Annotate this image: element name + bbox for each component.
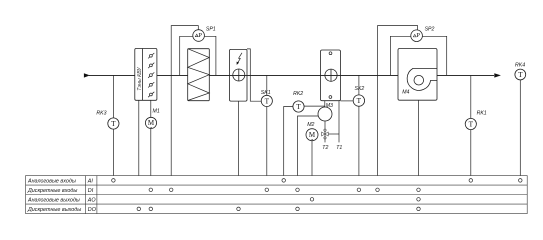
sensor RK1 — [465, 118, 476, 129]
IO table — [26, 176, 528, 214]
wire: SP1 signal line to DI row — [171, 26, 198, 190]
svg-text:M4: M4 — [402, 89, 409, 95]
pressure switch SP2 — [411, 30, 423, 42]
damper blade 1 — [148, 53, 154, 58]
svg-text:P: P — [416, 32, 420, 39]
wire: electric heater line to DO row — [238, 101, 240, 209]
node: RK4 to AI — [519, 179, 523, 183]
svg-text:M3: M3 — [326, 103, 333, 109]
sensor SK2 — [353, 95, 364, 106]
wire: valve stem up to heater bottom — [324, 101, 326, 108]
node: RK3 to AI — [112, 179, 116, 183]
node: electric heater to DO — [237, 207, 241, 211]
damper blade 5 — [148, 92, 154, 97]
electric heater symbol circle — [233, 69, 245, 81]
water heater box — [321, 50, 341, 101]
node: M1 to DI — [149, 188, 153, 192]
electric heater lightning bolt — [238, 53, 242, 63]
wire: duct segment 3 (filter to fan, through both heaters) — [209, 75, 398, 77]
svg-text:SK2: SK2 — [355, 86, 365, 92]
wire: SP1 left pressure tap — [180, 36, 199, 75]
node: SK1 to DI — [265, 188, 269, 192]
sensor RK4 — [515, 69, 526, 80]
pressure switch SP1 — [193, 30, 205, 42]
electric heater box — [230, 49, 248, 101]
svg-text:P: P — [198, 32, 202, 39]
svg-text:M1: M1 — [153, 108, 160, 114]
svg-text:Тэны КВУ: Тэны КВУ — [137, 67, 143, 91]
fan volute — [407, 68, 437, 90]
node: SK2 to DI — [357, 188, 361, 192]
wire: valve to T1 pipe — [329, 133, 339, 135]
water heater symbol circle — [325, 69, 337, 81]
svg-text:RK4: RK4 — [515, 62, 525, 68]
wire: RK2 capillary line to valve stem — [304, 105, 325, 107]
svg-text:DO: DO — [88, 207, 97, 213]
svg-text:T: T — [518, 70, 523, 79]
valve stem and T2 pipe — [324, 121, 326, 142]
node: M3 to DO — [296, 207, 300, 211]
pump M2 — [306, 129, 318, 141]
damper blade 4 — [148, 82, 154, 87]
node: RK2 to AI — [282, 179, 286, 183]
pipe T1 from heater to valve branch — [338, 101, 340, 143]
svg-text:T: T — [469, 120, 474, 129]
damper unit outer box — [135, 49, 157, 101]
svg-text:T: T — [296, 102, 301, 111]
water heater drain circle bottom — [329, 96, 332, 99]
valve coupling circle upper — [324, 129, 326, 131]
svg-text:Аналоговые входы: Аналоговые входы — [27, 178, 76, 184]
motor M1 — [145, 117, 156, 128]
sensor RK2 — [293, 101, 304, 112]
wire: duct segment 2 (damper to filter) — [157, 75, 188, 77]
svg-text:~: ~ — [311, 137, 314, 142]
outlet flow arrow — [494, 73, 501, 77]
filter box — [188, 49, 210, 101]
svg-text:M2: M2 — [307, 122, 314, 128]
svg-text:RK3: RK3 — [96, 111, 106, 117]
filter zigzag — [188, 49, 210, 101]
sensor RK3 — [108, 118, 119, 129]
node: M3 to DI — [296, 188, 300, 192]
wire: SK1 signal line duct to DI row — [266, 75, 268, 190]
wire: RK4 signal line to AI row — [519, 80, 521, 181]
wire: fan M4 lines to DI AO DO rows — [418, 100, 420, 209]
svg-text:Дискретные выходы: Дискретные выходы — [27, 207, 81, 213]
node: M4 to DI — [417, 188, 421, 192]
node: SP1 to DI — [169, 188, 173, 192]
wire: SP2 signal line to DI row — [378, 26, 418, 190]
svg-text:T2: T2 — [322, 145, 328, 151]
svg-text:SP1: SP1 — [206, 27, 216, 33]
svg-text:AI: AI — [87, 178, 94, 184]
fan box — [398, 49, 437, 101]
wire: SP2 right pressure tap — [417, 36, 447, 75]
inlet flow arrow — [84, 73, 90, 77]
wire: damper heater (Тэны КВУ) line to DO row — [138, 100, 140, 209]
svg-text:DI: DI — [88, 188, 94, 194]
wire: RK1 signal line duct to AI row — [470, 75, 472, 180]
wire: SP2 left pressure tap — [390, 36, 416, 75]
svg-text:~: ~ — [150, 125, 153, 130]
wire: SP1 right pressure tap — [199, 36, 216, 75]
wire: RK2 signal line to AI row — [284, 107, 293, 181]
svg-text:RK2: RK2 — [293, 91, 303, 97]
wire: M3 valve signal line to DI and DO rows — [298, 116, 319, 209]
wire: M2 pump line to AO row — [311, 135, 313, 200]
valve body (two triangles) — [322, 132, 325, 136]
damper blade 3 — [148, 72, 154, 77]
damper divider (Тэны КВУ column) — [142, 49, 144, 101]
svg-text:T: T — [265, 96, 270, 105]
wire: electric heater top-right stub to duct — [247, 49, 262, 101]
sensor SK1 — [261, 95, 272, 106]
svg-text:T: T — [111, 119, 116, 128]
svg-text:SP2: SP2 — [425, 27, 435, 33]
node: M4 to AO — [417, 198, 421, 202]
wire: M1 actuator line to DI and DO rows — [150, 100, 152, 209]
node: M1 to DO — [149, 207, 153, 211]
svg-text:RK1: RK1 — [477, 111, 487, 117]
wire: SK2 capillary line to water heater — [341, 100, 355, 102]
svg-text:Аналоговые выходы: Аналоговые выходы — [27, 197, 80, 203]
node: M4 to DO — [417, 207, 421, 211]
node: SP2 to DI — [376, 188, 380, 192]
valve actuator M3 — [318, 107, 332, 121]
damper blade 2 — [148, 63, 154, 68]
node: M2 to AO — [310, 198, 314, 202]
fan inner circle — [414, 75, 424, 85]
svg-text:SK1: SK1 — [261, 90, 271, 96]
node: RK1 to AI — [469, 179, 473, 183]
svg-text:T: T — [357, 96, 362, 105]
wire: SK2 signal line duct to DI row — [358, 75, 360, 190]
water heater vent circle top — [329, 52, 332, 55]
wire: main supply duct line segment 1 (inlet to damper) — [89, 75, 135, 77]
svg-text:T1: T1 — [336, 145, 342, 151]
wire: duct segment 4 (fan outlet to end arrow) — [437, 75, 494, 77]
node: damper heater to DO — [137, 207, 141, 211]
wire: RK3 signal line duct to AI row — [112, 75, 114, 180]
svg-text:AO: AO — [87, 197, 97, 203]
valve coupling circle lower — [324, 137, 326, 139]
svg-text:Дискретные входы: Дискретные входы — [27, 188, 77, 194]
